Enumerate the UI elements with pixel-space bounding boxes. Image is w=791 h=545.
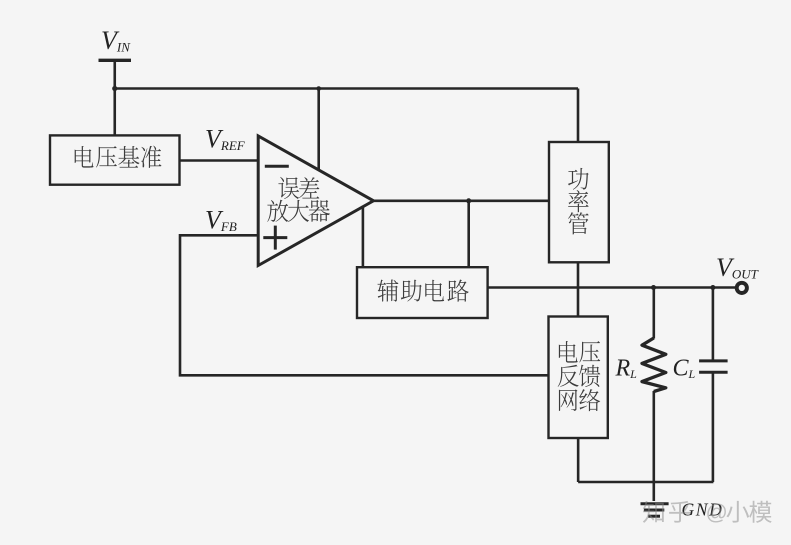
output terminal V_OUT (737, 283, 747, 293)
wire V_FB feedback (180, 235, 549, 375)
wire V_OUT rail (488, 286, 737, 289)
node R_L junction (651, 285, 656, 290)
ground symbol (641, 502, 669, 505)
wire R_L top (652, 288, 655, 339)
wire V_IN top rail (115, 87, 578, 90)
wire aux drop right (467, 201, 470, 267)
capacitor C_L (699, 359, 728, 362)
node op-amp supply junction (316, 86, 321, 91)
block U1 voltage reference (电压基准) (50, 135, 180, 184)
label 功率管 (568, 168, 589, 190)
wire feedback network bottom (577, 438, 580, 482)
wire ground rail (578, 481, 713, 484)
op-amp non-inverting input plus sign (263, 236, 287, 239)
resistor R_L (642, 338, 666, 392)
block U4 power transistor (功率管) (549, 142, 609, 262)
input terminal V_IN (99, 59, 132, 62)
label 电压基准 (75, 146, 162, 168)
wire power transistor bottom (577, 262, 580, 316)
label 放大器 (267, 200, 330, 222)
wire power transistor top (577, 89, 580, 143)
label 误差 (278, 177, 319, 199)
wire C_L bottom (712, 374, 715, 483)
wire V_REF (180, 159, 259, 162)
label 辅助电路 (377, 279, 468, 301)
op-amp U2 error amplifier (误差放大器) (258, 136, 373, 266)
wire aux drop left (362, 206, 365, 267)
watermark 知乎@小模 (643, 500, 772, 525)
block U5 feedback network (电压反馈网络) (549, 317, 608, 439)
wire R_L bottom (652, 391, 655, 482)
label 电压反馈网络 (559, 341, 600, 363)
node V_IN junction (112, 86, 117, 91)
wire V_IN vertical (113, 60, 116, 135)
node C_L junction (710, 285, 715, 290)
op-amp inverting input minus sign (265, 165, 289, 168)
svg-text:@: @ (706, 500, 728, 525)
block U3 auxiliary circuit (辅助电路) (357, 267, 488, 318)
wire C_L top (712, 288, 715, 361)
wire op-amp output (374, 200, 550, 203)
node aux junction (466, 198, 471, 203)
wire ground stub (652, 482, 655, 501)
wire op-amp supply drop (317, 89, 320, 173)
